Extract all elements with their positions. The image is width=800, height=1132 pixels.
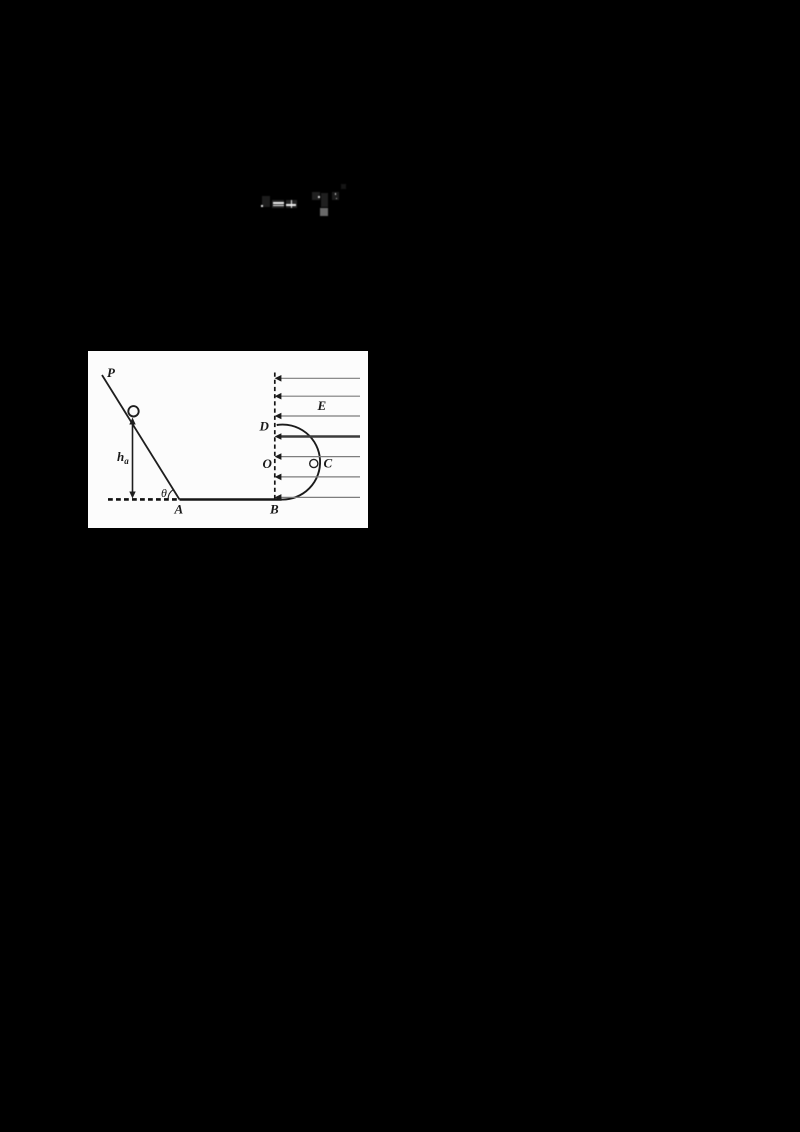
equals sign bright bars — [273, 202, 284, 204]
field line 4 thick — [281, 435, 360, 438]
upper faint mark — [341, 184, 346, 189]
glyph v0 dark — [262, 196, 270, 207]
svg-text:ha: ha — [117, 449, 129, 466]
field line 5 — [281, 456, 360, 458]
field arrow 4 — [275, 433, 282, 440]
plus-minus dark block — [286, 200, 297, 209]
svg-text:A: A — [174, 502, 184, 517]
field line 2 — [281, 395, 360, 397]
height arrow head down — [129, 492, 135, 499]
superscript bright dots — [335, 193, 337, 195]
field line 6 — [281, 476, 360, 478]
field arrow 7 — [275, 494, 282, 501]
angle arc at A — [168, 489, 174, 499]
svg-text:B: B — [269, 502, 279, 517]
incline line P to A — [102, 375, 180, 500]
equals sign dark block — [272, 200, 284, 209]
superscript dark — [332, 192, 339, 200]
svg-text:C: C — [324, 456, 333, 471]
digit 2 bright dot — [318, 196, 320, 198]
bright dot before equals — [261, 205, 263, 207]
svg-text:O: O — [263, 456, 273, 471]
field line 1 — [281, 377, 360, 379]
dashed vertical line B to top — [274, 373, 276, 500]
plus bright vertical — [291, 200, 293, 208]
digit 2 dark — [312, 192, 320, 200]
field line 3 — [281, 415, 360, 417]
dashed ground line left of A — [108, 498, 180, 501]
height arrow shaft — [132, 422, 134, 493]
digits 10 dark — [321, 193, 328, 207]
plus bright horizontal — [286, 204, 296, 206]
svg-text:θ: θ — [161, 486, 167, 500]
svg-text:P: P — [107, 365, 116, 380]
solid ground line A to B — [180, 498, 282, 500]
field arrow 1 — [275, 375, 282, 382]
ball on incline — [128, 406, 138, 416]
semicircular track D to B — [277, 425, 320, 500]
height arrow head up — [129, 418, 135, 425]
gray block under 10 — [320, 208, 328, 216]
svg-text:E: E — [317, 398, 327, 413]
svg-text:D: D — [259, 419, 270, 434]
field arrow 6 — [275, 474, 282, 481]
diagram panel — [88, 351, 368, 528]
field arrow 5 — [275, 453, 282, 460]
field line 7 — [281, 496, 360, 498]
ball at C — [310, 459, 318, 467]
field arrow 3 — [275, 413, 282, 420]
field arrow 2 — [275, 393, 282, 400]
faint formula row near top — [255, 183, 350, 217]
